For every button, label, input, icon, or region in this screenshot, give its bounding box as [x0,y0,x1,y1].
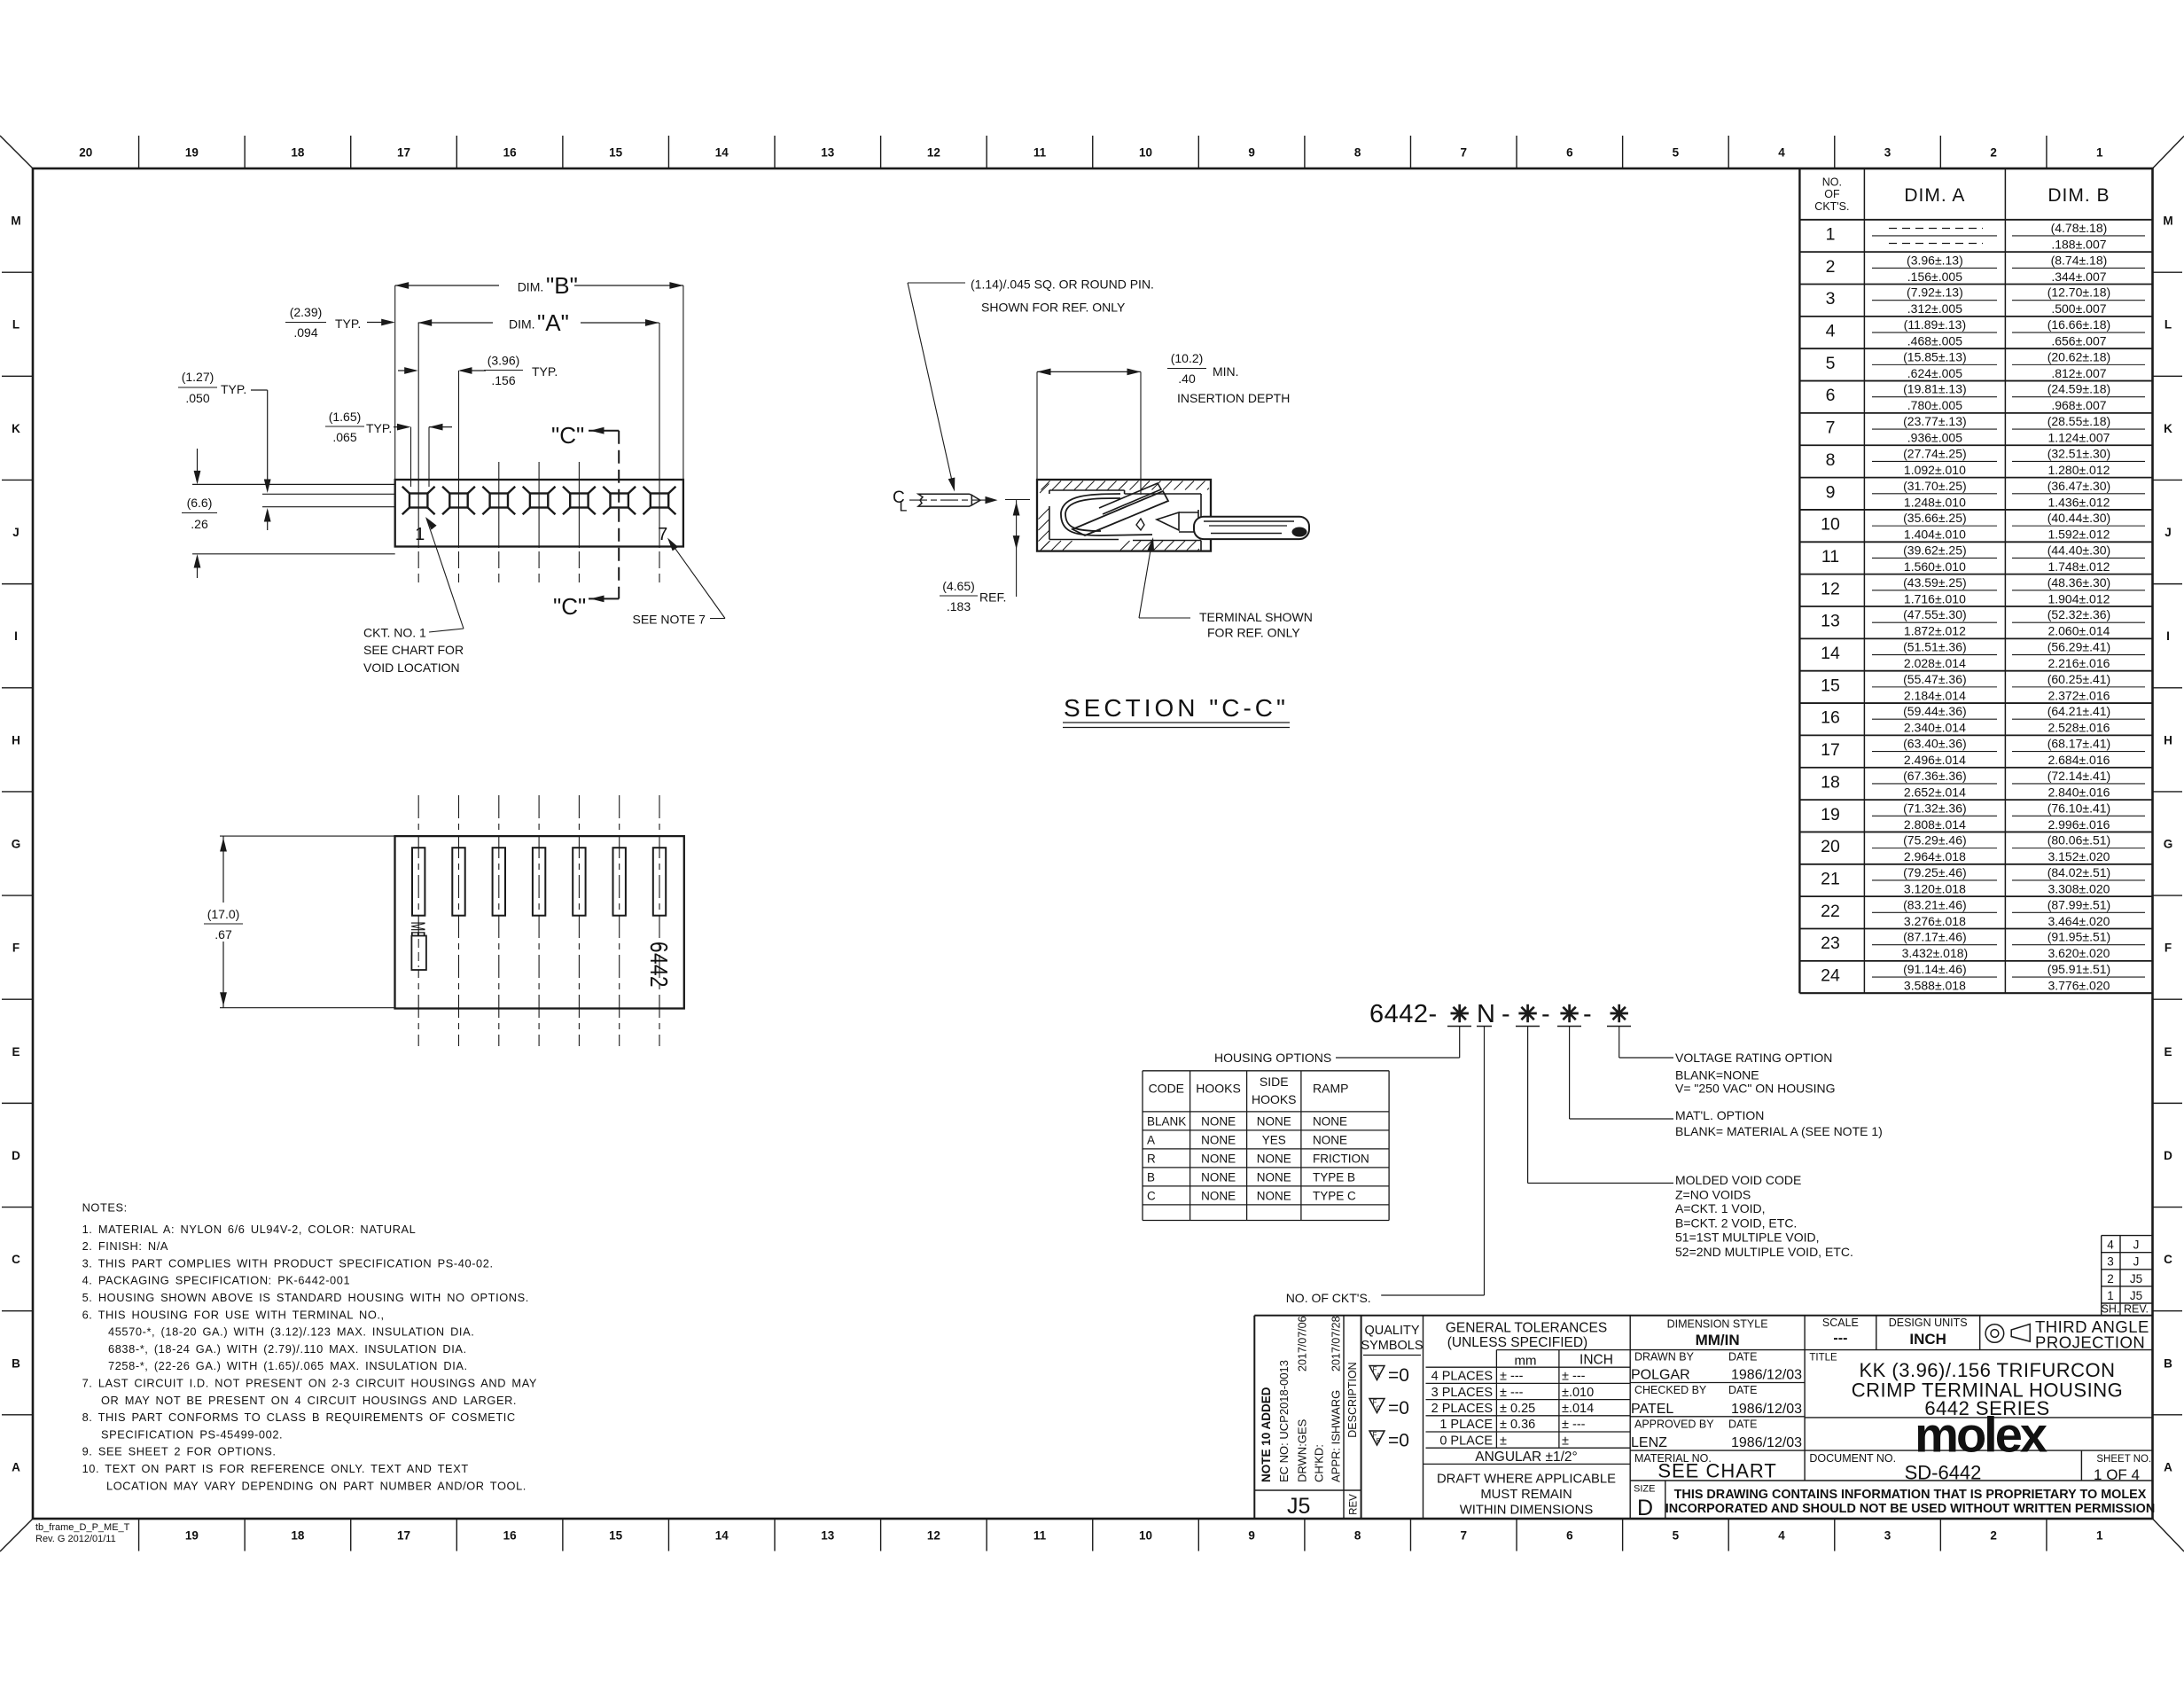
svg-text:19: 19 [185,1529,199,1543]
svg-text:5. HOUSING SHOWN ABOVE IS STAN: 5. HOUSING SHOWN ABOVE IS STANDARD HOUSI… [82,1291,529,1304]
svg-text:45570-*, (18-20 GA.) WITH (3.1: 45570-*, (18-20 GA.) WITH (3.12)/.123 MA… [108,1325,474,1339]
svg-text:52=2ND MULTIPLE VOID, ETC.: 52=2ND MULTIPLE VOID, ETC. [1675,1245,1853,1259]
svg-text:(44.40±.30): (44.40±.30) [2047,543,2111,557]
svg-text:(51.51±.36): (51.51±.36) [1903,640,1967,654]
svg-text:CODE: CODE [1149,1082,1184,1096]
svg-text:8: 8 [1826,450,1836,470]
svg-text:20: 20 [79,146,92,160]
svg-text:6: 6 [1566,146,1573,160]
svg-text:J5: J5 [2130,1272,2142,1286]
svg-text:10: 10 [1821,515,1840,535]
svg-text:16: 16 [503,146,518,160]
svg-text:TITLE: TITLE [1809,1353,1837,1364]
svg-text:9: 9 [1248,1529,1255,1543]
svg-text:DRAFT WHERE APPLICABLE: DRAFT WHERE APPLICABLE [1437,1473,1616,1487]
svg-text:18: 18 [291,1529,305,1543]
svg-text:9. SEE SHEET 2 FOR OPTIONS.: 9. SEE SHEET 2 FOR OPTIONS. [82,1445,277,1458]
svg-text:(1.14)/.045 SQ. OR ROUND PIN.: (1.14)/.045 SQ. OR ROUND PIN. [971,277,1154,292]
svg-text:PATEL: PATEL [1631,1402,1673,1417]
svg-text:C: C [1147,1189,1156,1202]
svg-text:MAT'L. OPTION: MAT'L. OPTION [1675,1108,1764,1122]
svg-text:(31.70±.25): (31.70±.25) [1903,479,1967,493]
svg-text:3 PLACES: 3 PLACES [1431,1386,1493,1400]
svg-text:NO. OF CKT'S.: NO. OF CKT'S. [1286,1291,1371,1305]
svg-text:13: 13 [821,146,835,160]
svg-text:(36.47±.30): (36.47±.30) [2047,479,2111,493]
svg-text:19: 19 [185,146,199,160]
svg-text:(83.21±.46): (83.21±.46) [1903,897,1967,911]
svg-text:7: 7 [1461,146,1468,160]
svg-text:(72.14±.41): (72.14±.41) [2047,769,2111,783]
svg-text:LOCATION MAY VARY DEPENDING ON: LOCATION MAY VARY DEPENDING ON PART NUMB… [106,1479,526,1492]
svg-text:1.404±.010: 1.404±.010 [1904,527,1966,542]
svg-text:1.092±.010: 1.092±.010 [1904,463,1966,477]
svg-text:.624±.005: .624±.005 [1907,366,1962,380]
svg-text:(63.40±.36): (63.40±.36) [1903,737,1967,751]
svg-text:CH'KD:: CH'KD: [1313,1444,1326,1482]
svg-text:(20.62±.18): (20.62±.18) [2047,349,2111,363]
svg-text:3: 3 [2107,1255,2114,1269]
svg-text:GENERAL TOLERANCES: GENERAL TOLERANCES [1446,1321,1607,1336]
svg-text:TYPE B: TYPE B [1313,1170,1355,1184]
svg-text:.968±.007: .968±.007 [2051,398,2106,412]
svg-text:(11.89±.13): (11.89±.13) [1904,317,1966,332]
svg-text:(4.65): (4.65) [942,579,975,593]
svg-text:10: 10 [1139,146,1152,160]
svg-text:± 0.36: ± 0.36 [1500,1418,1535,1432]
svg-text:(24.59±.18): (24.59±.18) [2047,382,2111,396]
svg-text:9: 9 [1248,146,1255,160]
svg-text:DIMENSION STYLE: DIMENSION STYLE [1667,1318,1768,1331]
svg-text:INSERTION DEPTH: INSERTION DEPTH [1177,391,1290,405]
svg-text:NONE: NONE [1201,1152,1236,1165]
svg-text:KK (3.96)/.156 TRIFURCON: KK (3.96)/.156 TRIFURCON [1859,1359,2115,1381]
svg-text:(27.74±.25): (27.74±.25) [1903,446,1967,460]
svg-text:3.152±.020: 3.152±.020 [2047,849,2110,864]
svg-text:E: E [2164,1045,2172,1059]
svg-text:(71.32±.36): (71.32±.36) [1903,801,1967,815]
svg-text:SHOWN FOR REF. ONLY: SHOWN FOR REF. ONLY [981,301,1126,315]
svg-text:Rev. G 2012/01/11: Rev. G 2012/01/11 [35,1534,116,1544]
svg-text:G: G [12,838,21,851]
svg-text:2.996±.016: 2.996±.016 [2047,817,2110,832]
svg-text:(59.44±.36): (59.44±.36) [1903,704,1967,718]
svg-text:3.276±.018: 3.276±.018 [1904,914,1966,928]
svg-text:CKT'S.: CKT'S. [1814,200,1849,213]
svg-text:L: L [900,500,908,515]
svg-text:VOLTAGE RATING OPTION: VOLTAGE RATING OPTION [1675,1051,1832,1065]
svg-text:17: 17 [397,1529,410,1543]
svg-text:2.964±.018: 2.964±.018 [1904,849,1966,864]
svg-text:(28.55±.18): (28.55±.18) [2047,414,2111,428]
svg-text:NONE: NONE [1257,1170,1291,1184]
svg-text:22: 22 [1821,902,1840,921]
svg-text:.094: .094 [293,325,317,340]
svg-text:EC NO: UCP2018-0013: EC NO: UCP2018-0013 [1277,1360,1291,1482]
svg-text:15: 15 [609,1529,623,1543]
svg-text:=0: =0 [1388,1430,1409,1450]
svg-text:(87.17±.46): (87.17±.46) [1903,930,1967,944]
svg-text:(1.65): (1.65) [329,410,362,424]
svg-text:2.808±.014: 2.808±.014 [1904,817,1966,832]
svg-text:BLANK= MATERIAL A (SEE NOTE 1): BLANK= MATERIAL A (SEE NOTE 1) [1675,1124,1883,1138]
svg-text:tb_frame_D_P_ME_T: tb_frame_D_P_ME_T [35,1522,130,1533]
svg-text:1: 1 [415,525,425,544]
svg-text:6: 6 [1566,1529,1573,1543]
svg-text:.936±.005: .936±.005 [1907,431,1962,445]
svg-text:RAMP: RAMP [1313,1082,1348,1096]
svg-text:2.528±.016: 2.528±.016 [2047,721,2110,735]
svg-text:M: M [11,215,20,228]
svg-text:1 PLACE: 1 PLACE [1439,1418,1493,1432]
svg-text:±: ± [1562,1434,1569,1448]
svg-text:12: 12 [927,146,940,160]
svg-text:8: 8 [1354,1529,1361,1543]
svg-text:=0: =0 [1388,1398,1409,1418]
svg-text:HOOKS: HOOKS [1196,1082,1241,1096]
svg-text:(8.74±.18): (8.74±.18) [2051,253,2108,267]
svg-text:C: C [12,1253,20,1266]
svg-text:M: M [2163,215,2172,228]
svg-text:.67: .67 [214,927,232,942]
svg-text:REF.: REF. [979,590,1006,605]
svg-text:9: 9 [1826,482,1836,502]
svg-text:3. THIS PART COMPLIES WITH PRO: 3. THIS PART COMPLIES WITH PRODUCT SPECI… [82,1256,494,1270]
svg-text:(91.14±.46): (91.14±.46) [1903,962,1967,976]
svg-text:NO.: NO. [1822,176,1842,188]
svg-text:DESIGN UNITS: DESIGN UNITS [1889,1317,1968,1329]
svg-text:B: B [12,1356,20,1370]
svg-text:6. THIS HOUSING FOR USE WITH T: 6. THIS HOUSING FOR USE WITH TERMINAL NO… [82,1308,385,1321]
svg-text:(68.17±.41): (68.17±.41) [2047,737,2111,751]
svg-text:---: --- [1833,1331,1847,1346]
svg-text:1.904±.012: 1.904±.012 [2047,591,2110,606]
svg-text:H: H [12,733,20,746]
svg-text:REV: REV [1349,1494,1360,1515]
svg-text:PROJECTION: PROJECTION [2035,1333,2145,1352]
svg-text:2: 2 [2107,1272,2114,1286]
svg-text:DRWN:GES: DRWN:GES [1296,1418,1309,1482]
svg-text:Z=NO VOIDS: Z=NO VOIDS [1675,1188,1751,1202]
svg-text:NONE: NONE [1313,1133,1347,1146]
svg-text:.065: .065 [332,430,356,444]
svg-text:7: 7 [1826,418,1836,438]
svg-text:OF: OF [1824,188,1840,200]
svg-text:DIM.: DIM. [509,317,535,332]
svg-text:.468±.005: .468±.005 [1907,334,1962,348]
svg-text:.812±.007: .812±.007 [2051,366,2106,380]
svg-text:16: 16 [503,1529,518,1543]
svg-text:16: 16 [1821,708,1840,728]
svg-text:B=CKT. 2 VOID, ETC.: B=CKT. 2 VOID, ETC. [1675,1216,1797,1231]
svg-text:.050: .050 [185,391,209,405]
svg-text:J: J [2164,526,2172,539]
svg-text:20: 20 [1821,837,1840,856]
svg-text:(95.91±.51): (95.91±.51) [2047,962,2111,976]
svg-text:A: A [1377,1373,1381,1379]
svg-text:1 OF 4: 1 OF 4 [2094,1466,2140,1483]
svg-text:1.280±.012: 1.280±.012 [2047,463,2110,477]
svg-text:.183: .183 [947,599,971,613]
svg-text:L: L [2164,318,2172,332]
svg-text:(2.39): (2.39) [290,305,323,319]
svg-text:51=1ST MULTIPLE VOID,: 51=1ST MULTIPLE VOID, [1675,1231,1820,1245]
svg-text:E: E [12,1045,19,1059]
svg-text:G: G [2164,838,2173,851]
svg-text:11: 11 [1821,547,1839,567]
svg-text:3.308±.020: 3.308±.020 [2047,881,2110,895]
svg-text:3: 3 [1826,289,1836,309]
svg-text:CHECKED BY: CHECKED BY [1634,1384,1707,1396]
svg-text:19: 19 [1821,805,1840,824]
svg-text:H: H [2164,733,2172,746]
svg-text:1.592±.012: 1.592±.012 [2047,527,2110,542]
svg-text:(56.29±.41): (56.29±.41) [2047,640,2111,654]
svg-text:B: B [2164,1356,2172,1370]
svg-text:1986/12/03: 1986/12/03 [1731,1435,1802,1450]
svg-text:D: D [1637,1496,1653,1520]
svg-text:B: B [1147,1170,1155,1184]
svg-text:1.248±.010: 1.248±.010 [1904,495,1966,509]
svg-text:(3.96): (3.96) [487,354,520,368]
svg-text:± ---: ± --- [1500,1370,1524,1384]
svg-text:MOLDED VOID CODE: MOLDED VOID CODE [1675,1173,1801,1187]
svg-text:1: 1 [1826,224,1836,244]
svg-text:2.840±.016: 2.840±.016 [2047,785,2110,799]
svg-text:10. TEXT ON PART IS FOR REFERE: 10. TEXT ON PART IS FOR REFERENCE ONLY. … [82,1462,469,1475]
svg-text:NONE: NONE [1313,1114,1347,1128]
svg-text:HOOKS: HOOKS [1252,1092,1297,1106]
svg-text:5: 5 [1673,146,1680,160]
svg-text:C: C [2164,1253,2172,1266]
svg-text:APPROVED BY: APPROVED BY [1634,1418,1714,1431]
svg-text:SECTION "C-C": SECTION "C-C" [1064,694,1289,722]
svg-text:6: 6 [1826,386,1836,405]
svg-text:FRICTION: FRICTION [1313,1152,1369,1165]
svg-text:K: K [12,422,20,435]
svg-text:21: 21 [1821,869,1840,888]
svg-text:2: 2 [1826,257,1836,277]
svg-text:4. PACKAGING SPECIFICATION: PK: 4. PACKAGING SPECIFICATION: PK-6442-001 [82,1274,351,1287]
svg-text:3: 3 [1884,146,1891,160]
svg-text:4: 4 [1778,1529,1785,1543]
svg-text:12: 12 [1821,579,1840,598]
svg-text:SPECIFICATION PS-45499-002.: SPECIFICATION PS-45499-002. [101,1427,283,1441]
svg-text:(64.21±.41): (64.21±.41) [2047,704,2111,718]
svg-text:F: F [2164,942,2172,955]
svg-text:7: 7 [1461,1529,1468,1543]
svg-text:3.464±.020: 3.464±.020 [2047,914,2110,928]
svg-text:MIN.: MIN. [1213,364,1239,379]
svg-text:± ---: ± --- [1562,1418,1586,1432]
svg-text:4: 4 [1826,322,1836,341]
svg-text:DESCRIPTION: DESCRIPTION [1346,1362,1359,1437]
svg-text:MUST REMAIN: MUST REMAIN [1480,1488,1572,1502]
svg-text:NOTES:: NOTES: [82,1200,128,1214]
svg-text:6442-: 6442- [1369,1000,1438,1028]
svg-text:-: - [1583,1000,1592,1028]
svg-text:(43.59±.25): (43.59±.25) [1903,575,1967,590]
svg-text:(UNLESS SPECIFIED): (UNLESS SPECIFIED) [1447,1335,1587,1350]
svg-text:2.028±.014: 2.028±.014 [1904,656,1966,670]
svg-text:23: 23 [1821,934,1840,953]
svg-text:±: ± [1500,1434,1507,1448]
svg-text:2 PLACES: 2 PLACES [1431,1402,1493,1416]
svg-text:"A": "A" [537,309,569,336]
svg-text:NONE: NONE [1201,1114,1236,1128]
svg-text:TYPE C: TYPE C [1313,1189,1356,1202]
svg-text:TERMINAL SHOWN: TERMINAL SHOWN [1199,610,1313,624]
svg-text:SEE CHART: SEE CHART [1657,1460,1777,1482]
svg-text:1.872±.012: 1.872±.012 [1904,624,1966,638]
svg-text:I: I [14,629,18,643]
svg-text:.40: .40 [1178,371,1196,386]
svg-text:(35.66±.25): (35.66±.25) [1903,511,1967,525]
svg-text:BLANK: BLANK [1147,1114,1186,1128]
svg-text:NONE: NONE [1257,1114,1291,1128]
svg-text:2.652±.014: 2.652±.014 [1904,785,1966,799]
svg-text:J: J [12,526,19,539]
svg-text:14: 14 [1821,644,1840,663]
svg-text:0 PLACE: 0 PLACE [1439,1434,1493,1448]
svg-text:V= "250 VAC" ON HOUSING: V= "250 VAC" ON HOUSING [1675,1082,1835,1096]
svg-text:YES: YES [1262,1133,1286,1146]
svg-text:(87.99±.51): (87.99±.51) [2047,897,2111,911]
svg-text:J5: J5 [2130,1289,2142,1302]
svg-text:5: 5 [1826,354,1836,373]
svg-text:.312±.005: .312±.005 [1907,301,1962,316]
svg-text:DRAWN BY: DRAWN BY [1634,1351,1695,1364]
svg-text:10: 10 [1139,1529,1152,1543]
svg-text:2017/07/28: 2017/07/28 [1330,1316,1343,1371]
svg-text:.26: .26 [191,517,208,531]
svg-text:(76.10±.41): (76.10±.41) [2047,801,2111,815]
svg-text:4: 4 [2107,1239,2114,1252]
svg-text:4: 4 [1778,146,1785,160]
svg-text:2. FINISH: N/A: 2. FINISH: N/A [82,1239,168,1253]
svg-text:I: I [2166,629,2170,643]
svg-text:.780±.005: .780±.005 [1907,398,1962,412]
svg-text:(17.0): (17.0) [207,907,240,921]
svg-text:NONE: NONE [1201,1133,1236,1146]
svg-text:REV.: REV. [2124,1303,2149,1316]
svg-text:"B": "B" [546,272,578,299]
svg-text:-: - [1501,1000,1510,1028]
svg-text:(1.27): (1.27) [182,370,214,384]
svg-text:J: J [2133,1255,2140,1269]
svg-text:2017/07/06: 2017/07/06 [1297,1316,1309,1371]
svg-text:(52.32±.36): (52.32±.36) [2047,607,2111,621]
svg-text:.656±.007: .656±.007 [2051,334,2106,348]
svg-text:-: - [1541,1000,1550,1028]
svg-text:=0: =0 [1388,1365,1409,1386]
svg-text:mm: mm [1515,1354,1537,1369]
svg-text:QUALITY: QUALITY [1364,1324,1419,1338]
svg-text:FOR REF. ONLY: FOR REF. ONLY [1207,626,1300,640]
svg-text:DIM. B: DIM. B [2047,185,2110,206]
svg-text:7. LAST CIRCUIT I.D. NOT PRESE: 7. LAST CIRCUIT I.D. NOT PRESENT ON 2-3 … [82,1377,537,1390]
svg-text:SCALE: SCALE [1822,1317,1859,1329]
svg-text:± ---: ± --- [1562,1370,1586,1384]
svg-text:THIS DRAWING CONTAINS INFORMAT: THIS DRAWING CONTAINS INFORMATION THAT I… [1674,1488,2147,1502]
svg-text:BLANK=NONE: BLANK=NONE [1675,1068,1759,1082]
svg-text:±.014: ±.014 [1562,1402,1594,1416]
svg-text:TYP.: TYP. [335,316,361,331]
svg-text:DATE: DATE [1728,1384,1757,1396]
svg-text:2.372±.016: 2.372±.016 [2047,688,2110,702]
svg-text:"C": "C" [553,593,586,620]
svg-text:17: 17 [1821,740,1840,760]
svg-text:15: 15 [609,146,623,160]
svg-text:6838-*, (18-24 GA.) WITH (2.79: 6838-*, (18-24 GA.) WITH (2.79)/.110 MAX… [108,1342,467,1356]
svg-text:.344±.007: .344±.007 [2051,270,2106,284]
svg-text:2: 2 [1990,146,1997,160]
svg-text:(55.47±.36): (55.47±.36) [1903,672,1967,686]
svg-text:L: L [12,318,19,332]
svg-text:A: A [12,1460,20,1473]
svg-text:N: N [1477,1000,1495,1028]
svg-text:SD-6442: SD-6442 [1905,1462,1982,1484]
svg-text:HOUSING OPTIONS: HOUSING OPTIONS [1214,1051,1331,1065]
svg-text:(47.55±.30): (47.55±.30) [1903,607,1967,621]
svg-text:WITHIN DIMENSIONS: WITHIN DIMENSIONS [1460,1504,1594,1518]
svg-text:POLGAR: POLGAR [1631,1368,1690,1383]
svg-text:B: B [1377,1438,1381,1444]
svg-text:(91.95±.51): (91.95±.51) [2047,930,2111,944]
svg-text:(16.66±.18): (16.66±.18) [2047,317,2111,332]
svg-text:INCORPORATED AND SHOULD NOT BE: INCORPORATED AND SHOULD NOT BE USED WITH… [1665,1502,2155,1516]
svg-text:LENZ: LENZ [1631,1435,1667,1450]
svg-text:8. THIS PART CONFORMS TO CLASS: 8. THIS PART CONFORMS TO CLASS B REQUIRE… [82,1411,516,1424]
svg-text:± ---: ± --- [1500,1386,1524,1400]
svg-text:(7.92±.13): (7.92±.13) [1907,285,1963,300]
svg-text:13: 13 [821,1529,835,1543]
svg-text:A: A [1147,1133,1155,1146]
svg-text:1.124±.007: 1.124±.007 [2047,431,2110,445]
svg-text:C: C [1376,1406,1380,1412]
svg-text:(19.81±.13): (19.81±.13) [1903,382,1967,396]
svg-text:SYMBOLS: SYMBOLS [1361,1339,1423,1353]
svg-text:"C": "C" [551,422,584,449]
svg-text:SEE NOTE 7: SEE NOTE 7 [633,613,706,627]
svg-text:11: 11 [1033,1529,1047,1543]
svg-text:APPR: ISHWARG: APPR: ISHWARG [1330,1390,1343,1482]
svg-text:OR MAY NOT BE PRESENT ON 4 CIR: OR MAY NOT BE PRESENT ON 4 CIRCUIT HOUSI… [101,1394,517,1407]
svg-text:8: 8 [1354,146,1361,160]
svg-text:(75.29±.46): (75.29±.46) [1903,833,1967,848]
svg-text:(15.85±.13): (15.85±.13) [1903,349,1967,363]
svg-text:A=CKT. 1 VOID,: A=CKT. 1 VOID, [1675,1201,1766,1215]
svg-text:R: R [1147,1152,1156,1165]
svg-text:INCH: INCH [1579,1353,1613,1368]
svg-text:1.436±.012: 1.436±.012 [2047,495,2110,509]
svg-text:18: 18 [1821,772,1840,792]
svg-text:K: K [2164,422,2172,435]
svg-text:SIDE: SIDE [1260,1075,1289,1089]
svg-text:3.588±.018: 3.588±.018 [1904,979,1966,993]
svg-text:.188±.007: .188±.007 [2051,237,2106,251]
svg-text:DATE: DATE [1728,1418,1757,1431]
svg-text:3.432±.018): 3.432±.018) [1902,946,1969,960]
svg-text:D: D [12,1149,20,1162]
svg-text:1.716±.010: 1.716±.010 [1904,591,1966,606]
svg-text:± 0.25: ± 0.25 [1500,1402,1535,1416]
svg-text:NONE: NONE [1201,1170,1236,1184]
svg-text:7: 7 [658,525,667,544]
svg-text:1. MATERIAL A: NYLON 6/6 UL94V: 1. MATERIAL A: NYLON 6/6 UL94V-2, COLOR:… [82,1223,417,1236]
svg-text:TYP.: TYP. [221,382,246,396]
svg-text:DOCUMENT NO.: DOCUMENT NO. [1809,1452,1896,1465]
